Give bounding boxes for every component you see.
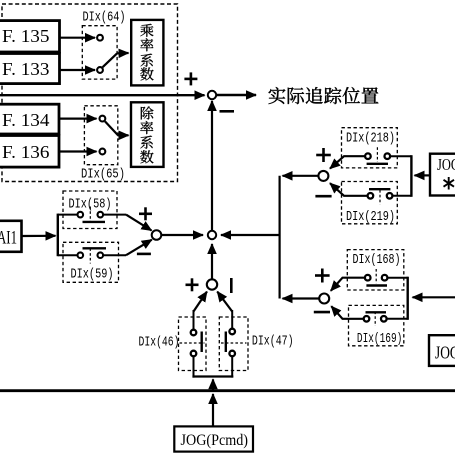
wire JOG(Pcmd) up into bottom rail [212,394,214,426]
label DIx(59) [71,267,114,283]
wire J4 up to J2 [211,244,213,279]
wire collector to J2 [221,234,280,236]
wire JOG box 1 to branch [415,174,431,176]
wire F.134 to switch [59,117,97,119]
wire DIx(218) slant into J5 (plus) [330,156,365,168]
plus sign at J6 [315,269,330,283]
label DIx(58) [69,197,112,213]
wire F.135 to switch [59,37,95,39]
svg-text:F. 134: F. 134 [2,110,50,130]
svg-text:DIx(168): DIx(168) [353,252,401,268]
summing junction J1 [208,91,216,99]
wire DIx(59) to J3 (minus input) [126,240,152,256]
parameter box F.136 [0,136,59,168]
switch DIx(58) contact [58,207,126,222]
summing junction J4 [207,279,217,289]
parameter box F.135 [0,21,60,52]
summing junction J5 [318,171,328,181]
switch DIx(168) contact [365,269,408,286]
switch DIx(219) contact [368,189,412,204]
summing junction J3 [152,230,162,240]
switch DIx(47) dashed box [219,317,248,371]
branch wire vertical for DIx(58)/(59) [57,214,59,257]
wire DIx(169) slant into J6 (minus) [331,306,363,319]
wire switch DIx(65) to divider box [118,134,129,136]
dashed enclosure (coefficient select block) [2,4,178,182]
parameter box F.134 [0,104,59,134]
input box AI1 [0,221,22,252]
label DIx(169) [357,331,402,347]
command box JOG(Pcmd) [174,426,253,451]
bottom rail wire (full width) [0,389,455,392]
wire F.133 to switch [59,69,95,71]
wire J3 to J2 [162,234,204,236]
label DIx(47) [252,334,294,350]
branch wire vertical for DIx(218)/(219) [410,155,412,197]
switch DIx(169) dashed box [349,305,404,345]
svg-text:DIx(219): DIx(219) [346,209,395,225]
branch wire vertical for DIx(168)/(169) [407,277,409,320]
switch DIx(218) dashed box [342,128,398,168]
wire J5 output to collector [283,175,319,177]
label DIx(64) [83,10,126,26]
wire J2 up to J1 (minus input) [211,101,213,231]
wire switch DIx(64) to multiplier box [117,52,129,55]
wire from right edge to branch [413,296,455,298]
switch DIx(46) dashed box [179,317,207,371]
minus sign at J6 [314,311,330,314]
switch DIx(65) contacts and lever [100,116,119,155]
collector wire vertical (right sums to J2) [279,176,281,299]
wire F.136 to switch [59,150,97,152]
label DIx(46) [139,335,180,351]
switch DIx(47) contact [221,310,247,378]
wire AI1 to branch [22,235,56,237]
wire DIx(58) to J3 (plus input) [126,215,152,231]
svg-text:F. 135: F. 135 [2,26,50,46]
wire arrow from bottom rail up into switch join [212,379,214,390]
label DIx(65) [81,167,125,183]
summing junction J6 [319,294,329,304]
svg-text:JOG(Pcmd): JOG(Pcmd) [181,432,249,449]
svg-text:DIx(47): DIx(47) [252,334,294,350]
plus sign at J5 [316,148,331,162]
parameter box F.133 [0,54,60,84]
minus sign at J5 [315,195,331,198]
switch DIx(218) contact [365,147,411,164]
minus sign below J1 [220,110,235,113]
svg-text:AI1: AI1 [0,228,17,249]
wire joining DIx(46)/(47) bottoms [192,375,233,377]
svg-text:F. 136: F. 136 [2,142,50,162]
svg-text:DIx(58): DIx(58) [69,197,112,213]
svg-text:JOG(: JOG( [437,155,455,174]
wire DIx(46) slant into J4 [194,292,207,312]
minus sign at J3 [137,253,151,256]
switch DIx(46) contact [180,310,205,378]
wire DIx(219) slant into J5 (minus) [330,183,368,196]
svg-text:DIx(169): DIx(169) [357,331,402,347]
label DIx(168) [353,252,401,268]
plus sign at J4 [186,278,199,291]
divider coefficient box 除率系数 [131,102,164,167]
command box JOG upper [430,154,455,196]
bar sign at J4 right input [230,278,233,293]
switch DIx(64) contacts and lever [97,35,117,73]
wire J1 output to actual tracking position [217,94,257,96]
switch DIx(169) contact [364,312,408,327]
wire main position feedback line into summing junction J1 [0,94,205,96]
svg-text:DIx(65): DIx(65) [81,167,125,183]
svg-text:DIx(218): DIx(218) [346,131,395,147]
label DIx(219) [346,209,395,225]
plus sign at J3 [139,207,152,220]
label DIx(218) [346,131,395,147]
wire DIx(168) slant into J6 (plus) [331,278,365,291]
node label 实际追踪位置 [268,87,378,104]
wire J6 output to collector [283,297,320,299]
command box JOG lower [429,335,455,366]
multiplier coefficient box 乘率系数 [131,20,163,86]
svg-text:DIx(64): DIx(64) [83,10,126,26]
svg-text:JOG(: JOG( [435,343,455,363]
plus sign at J1 [184,72,197,85]
wire DIx(47) slant into J4 [217,292,232,312]
switch DIx(58) dashed box [63,191,117,229]
switch DIx(219) dashed box [342,182,398,224]
switch DIx(65) dashed box [84,106,117,165]
switch DIx(59) dashed box [63,242,119,282]
summing junction J2 [208,231,216,239]
svg-text:DIx(46): DIx(46) [139,335,180,351]
svg-text:F. 133: F. 133 [2,59,50,79]
switch DIx(64) dashed box [82,26,117,79]
switch DIx(168) dashed box [347,250,404,290]
svg-text:DIx(59): DIx(59) [71,267,114,283]
switch DIx(59) contact [58,248,126,263]
